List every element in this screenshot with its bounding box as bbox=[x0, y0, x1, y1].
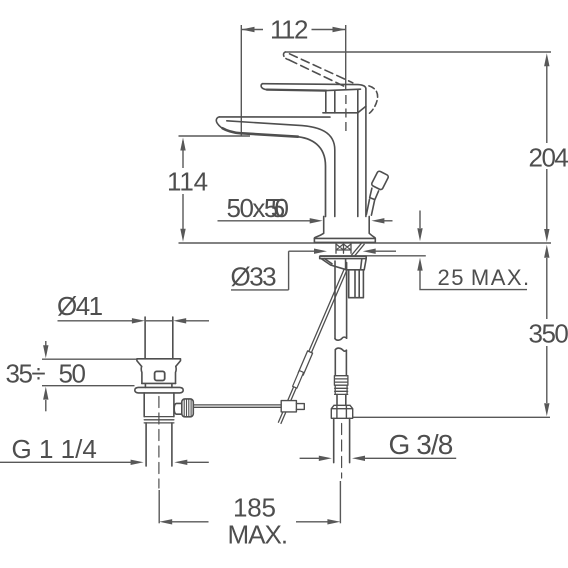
rod joint block bbox=[281, 401, 296, 412]
svg-text:G 3/8: G 3/8 bbox=[389, 429, 453, 460]
dim G114 right tail bbox=[186, 461, 209, 463]
hose fitting ridges bbox=[335, 385, 348, 394]
svg-text:50: 50 bbox=[59, 359, 86, 389]
dim 112 dimension line bbox=[241, 29, 263, 31]
drain thread lines bbox=[144, 417, 174, 423]
handle top edge bbox=[263, 84, 366, 89]
drain disc bbox=[135, 387, 183, 393]
dim O41 mid segment bbox=[146, 320, 172, 322]
svg-text:114: 114 bbox=[167, 167, 208, 197]
arrow 114 up bbox=[180, 138, 185, 151]
handle end cap face bbox=[358, 89, 366, 113]
dim 350 dimension line lower bbox=[546, 346, 548, 403]
dim O33 underline bbox=[231, 289, 289, 291]
dim G38 dimension line left bbox=[300, 457, 320, 459]
arrow 25MAX down bbox=[417, 228, 422, 241]
dim 114 dimension line lower bbox=[182, 194, 184, 230]
arrow 25MAX up bbox=[417, 258, 422, 271]
pop-up rod knob bbox=[371, 170, 389, 190]
dim 350 dimension line upper bbox=[546, 258, 548, 319]
arrow G114 left-pointing bbox=[174, 460, 187, 465]
dim 25MAX extension line upper bbox=[419, 211, 421, 229]
dim 185 dimension line left bbox=[171, 521, 209, 523]
raised handle dashed lower line bbox=[289, 60, 346, 87]
cartridge block left bbox=[325, 91, 327, 113]
arrow O33 left-pointing bbox=[363, 249, 376, 254]
svg-text:185: 185 bbox=[233, 493, 276, 523]
dim 185 right extension line bbox=[339, 481, 341, 523]
escutcheon right side bbox=[369, 216, 375, 238]
svg-text:MAX.: MAX. bbox=[228, 520, 288, 550]
drain knob neck bbox=[174, 403, 182, 414]
arrow 50x50 left bbox=[310, 218, 323, 223]
faucet tail centerline bbox=[341, 424, 343, 479]
dim G38 right tail underline bbox=[364, 457, 456, 459]
faucet body right edges bbox=[357, 90, 359, 217]
deck top line bbox=[179, 242, 552, 244]
arrow 350 down bbox=[544, 403, 549, 416]
escutcheon base plate bbox=[314, 238, 375, 242]
dim 114 top reference line bbox=[179, 135, 251, 137]
arrow 114 down bbox=[180, 229, 185, 242]
arrow 35-50 up bbox=[43, 387, 48, 400]
arrow 204 up bbox=[544, 53, 549, 66]
dim 204 top reference line bbox=[285, 51, 551, 53]
arrow 50x50 right bbox=[371, 218, 384, 223]
arrow 185 right bbox=[327, 519, 340, 524]
dim O33 right tail bbox=[375, 250, 397, 252]
mounting stud block bbox=[349, 270, 364, 298]
cartridge block bottom bbox=[323, 112, 358, 114]
faucet spout top edge bbox=[219, 116, 330, 118]
faucet spout underside bbox=[250, 134, 326, 217]
svg-text:0: 0 bbox=[275, 193, 289, 223]
dim 112 right extension line bbox=[345, 25, 347, 90]
pull rod horizontal bbox=[193, 405, 281, 407]
faucet cartridge dashed centerline bbox=[345, 95, 347, 134]
pop-up rod taper bbox=[370, 188, 379, 199]
dim 185 dimension line right bbox=[296, 521, 329, 523]
drain knurled knob bbox=[182, 399, 194, 417]
arrow G38 right-pointing bbox=[319, 456, 332, 461]
pop-up rod through deck bbox=[351, 244, 364, 256]
drain flange bbox=[137, 359, 181, 367]
faucet tail pipe bbox=[334, 418, 350, 462]
arrow 185 left bbox=[159, 519, 172, 524]
arrow 204 down bbox=[544, 229, 549, 242]
dim 35-50 top reference line bbox=[42, 358, 137, 360]
svg-text:35÷: 35÷ bbox=[6, 359, 46, 389]
drain collar band bbox=[142, 383, 176, 387]
fitting neck bbox=[337, 394, 346, 405]
handle end cap dashed arc bbox=[369, 86, 378, 113]
drain cup body bbox=[141, 366, 176, 383]
svg-text:350: 350 bbox=[529, 319, 568, 349]
dim 35-50 bottom reference line bbox=[42, 385, 135, 387]
drain square hole bbox=[155, 371, 165, 380]
dim 112 left extension line bbox=[240, 25, 242, 136]
svg-text:112: 112 bbox=[270, 15, 308, 45]
supply hose lower bbox=[335, 350, 346, 376]
raised handle dashed tip arc bbox=[283, 52, 288, 60]
arrow O33 right-pointing bbox=[314, 249, 327, 254]
rod sleeve bbox=[298, 351, 312, 375]
rod sleeve lower section bbox=[293, 371, 304, 389]
drain centerline bbox=[158, 397, 160, 489]
rod joint stub bbox=[296, 404, 304, 410]
dim O41 dimension line bbox=[58, 320, 134, 322]
arrow O41 right-pointing bbox=[132, 318, 145, 323]
arrow 112 left bbox=[241, 27, 254, 32]
dim O41 right tail bbox=[185, 320, 209, 322]
pop-up rod upper bbox=[366, 199, 374, 215]
faucet spout inner lip line bbox=[227, 121, 335, 217]
dim 35-50 lower stem bbox=[45, 400, 47, 411]
hose fitting band bbox=[334, 376, 348, 386]
diagonal pop-up rod lower bbox=[278, 269, 346, 423]
arrow 35-50 down bbox=[43, 345, 48, 358]
deck bottom line bbox=[320, 255, 426, 257]
arrow O41 left-pointing bbox=[173, 318, 186, 323]
dim 350 bottom reference line bbox=[353, 416, 551, 418]
dim 50x50 dimension line left bbox=[218, 220, 312, 222]
raised handle dashed upper line bbox=[290, 54, 353, 83]
clamp bracket body bbox=[321, 259, 366, 270]
arrow G38 left-pointing bbox=[352, 456, 365, 461]
dim O33 leader riser bbox=[288, 251, 290, 290]
svg-text:Ø33: Ø33 bbox=[231, 262, 277, 292]
arrow 350 up bbox=[544, 245, 549, 258]
tail nut bbox=[331, 405, 352, 418]
drain lower body bbox=[144, 393, 174, 417]
dim 50x50 dimension line right bbox=[383, 220, 393, 222]
drain tailpipe bbox=[146, 423, 172, 466]
clamp bracket plate bbox=[320, 256, 367, 258]
arrow G114 right-pointing bbox=[131, 460, 144, 465]
faucet spout tip bbox=[216, 117, 250, 134]
escutcheon left side bbox=[314, 216, 323, 238]
dim 204 dimension line lower bbox=[546, 169, 548, 229]
drain top tube bbox=[145, 317, 173, 359]
hose break squiggle bbox=[335, 337, 347, 340]
faucet spout underside thick shadow bbox=[223, 128, 299, 137]
svg-text:204: 204 bbox=[529, 143, 568, 173]
supply hose upper bbox=[335, 261, 347, 339]
arrow 112 right bbox=[333, 27, 346, 32]
svg-text:G 1 1/4: G 1 1/4 bbox=[12, 434, 97, 464]
dim O33 leader horizontal bbox=[289, 250, 315, 252]
svg-text:Ø41: Ø41 bbox=[57, 291, 103, 321]
cartridge block inner line bbox=[334, 90, 336, 113]
dim 114 dimension line upper bbox=[182, 141, 184, 168]
handle left tip bbox=[261, 84, 267, 90]
shank hatched block bbox=[336, 244, 351, 253]
handle bottom edge bbox=[267, 90, 326, 91]
dim 204 dimension line bbox=[546, 62, 548, 143]
dim 25MAX leader bbox=[420, 270, 527, 290]
dim 185 left extension line bbox=[158, 490, 160, 523]
svg-text:25 MAX.: 25 MAX. bbox=[438, 265, 531, 290]
dim 35-50 upper stem bbox=[45, 341, 47, 346]
dim G114 dimension line left bbox=[0, 461, 132, 463]
